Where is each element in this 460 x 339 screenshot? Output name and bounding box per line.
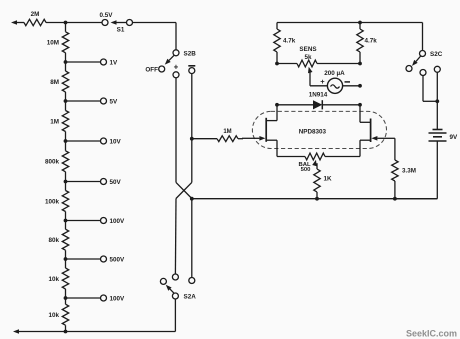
- node tap 500V: [64, 257, 68, 261]
- resistor 10k (ladder): [48, 259, 68, 298]
- terminal OFF (S2B): [145, 66, 164, 74]
- wire BAL rung right: [325, 156, 360, 158]
- switch S2A pole: [172, 293, 196, 301]
- meter M1 200uA: [320, 70, 350, 93]
- svg-text:+: +: [174, 62, 179, 71]
- resistor 800k (ladder): [45, 141, 69, 182]
- svg-text:5V: 5V: [110, 98, 119, 105]
- wiper SENS arrow: [308, 67, 313, 86]
- node meter right rail: [358, 84, 362, 88]
- node bottom-rail junction: [190, 197, 194, 201]
- wire + probe line down: [175, 78, 177, 183]
- package outline NPD8303 (dashed oval): [252, 111, 386, 148]
- node ladder top junction: [64, 21, 68, 25]
- svg-text:S2A: S2A: [184, 294, 197, 301]
- node tap 50V: [64, 180, 68, 184]
- terminal 500V: [101, 256, 126, 263]
- resistor 4.7k left: [274, 23, 296, 64]
- watermark SeekIC.com: [406, 329, 457, 339]
- wire battery to bottom rail: [395, 141, 437, 199]
- terminal 100V: [101, 218, 126, 225]
- resistor 80k (ladder): [48, 221, 68, 260]
- switch S2B pole: [173, 50, 196, 58]
- svg-text:OFF: OFF: [145, 67, 158, 74]
- node diode right rail: [358, 103, 362, 107]
- wire diode rung left: [277, 104, 313, 106]
- node tap 5V: [64, 99, 68, 103]
- svg-text:8M: 8M: [50, 79, 59, 86]
- switch S2B wiper arrow: [165, 55, 174, 64]
- wire BAL rung left: [277, 156, 305, 158]
- terminal S2A contact left: [160, 278, 166, 284]
- terminal 5V: [101, 98, 119, 105]
- node tap 100V: [64, 219, 68, 223]
- wire wiper to meter: [310, 85, 328, 87]
- wire gate Q1 with arrow: [242, 136, 265, 141]
- wire top rail to S2C: [422, 23, 424, 51]
- svg-text:3.3M: 3.3M: [402, 168, 416, 175]
- svg-text:5k: 5k: [304, 54, 312, 61]
- svg-text:SENS: SENS: [299, 46, 316, 53]
- wire tap 500V: [66, 258, 101, 260]
- node SENS left rail: [275, 62, 279, 66]
- svg-text:500: 500: [301, 167, 312, 173]
- svg-text:10M: 10M: [47, 40, 59, 47]
- wire top rail: [277, 22, 423, 24]
- terminal 1V: [101, 59, 119, 66]
- svg-text:800k: 800k: [45, 159, 60, 166]
- resistor R 2M (horizontal): [24, 11, 46, 26]
- resistor 100k (ladder): [45, 182, 69, 221]
- node 1K bottom: [315, 197, 319, 201]
- svg-text:1V: 1V: [110, 59, 119, 66]
- terminal 50V: [101, 179, 122, 186]
- switch S2C pole: [420, 51, 443, 59]
- wire tap 50V: [66, 181, 101, 183]
- svg-text:NPD8303: NPD8303: [299, 128, 327, 135]
- wire tap 1V: [66, 61, 101, 63]
- wire gate Q2 with arrow: [371, 136, 395, 141]
- resistor 1M (gate): [192, 129, 243, 141]
- wire bottom bus with left arrow: [13, 329, 175, 334]
- svg-text:1M: 1M: [50, 118, 59, 125]
- wire SENS rung left: [277, 63, 297, 65]
- switch S1 wiper arrow: [111, 20, 127, 33]
- potentiometer BAL 500: [298, 153, 325, 173]
- wire ladder top to 0.5V terminal: [66, 22, 103, 24]
- svg-text:100V: 100V: [110, 218, 126, 225]
- wiper BAL arrow: [312, 160, 317, 169]
- wire tap 100V: [66, 297, 101, 299]
- svg-text:0.5V: 0.5V: [100, 12, 114, 19]
- wire S2C right contact to battery node: [436, 72, 438, 101]
- wire 2M to ladder top node: [46, 22, 66, 24]
- node SENS right rail: [358, 62, 362, 66]
- resistor 10M (ladder): [47, 23, 69, 63]
- node tap 10V: [64, 139, 68, 143]
- node tap 100V: [64, 296, 68, 300]
- svg-text:1N914: 1N914: [309, 92, 328, 99]
- terminal − input: [188, 66, 195, 74]
- svg-text:9V: 9V: [450, 134, 459, 141]
- wire − probe line down: [191, 74, 193, 183]
- terminal S2A contact mid: [172, 274, 178, 280]
- terminal S2C contact left: [406, 66, 412, 72]
- svg-text:SeekIC.com: SeekIC.com: [406, 329, 457, 339]
- wire meter to right rail: [343, 85, 360, 87]
- transistor Q2 (right JFET of NPD8303): [360, 105, 371, 157]
- node top rail right-4.7k: [358, 21, 362, 25]
- svg-text:4.7k: 4.7k: [365, 38, 378, 45]
- wire top-left lead with arrow: [11, 20, 24, 25]
- svg-text:100V: 100V: [110, 295, 126, 302]
- node tap 1V: [64, 60, 68, 64]
- node 1M gate tap: [190, 137, 194, 141]
- svg-text:+: +: [320, 77, 325, 86]
- terminal + input: [173, 62, 179, 78]
- node diode left rail: [275, 103, 279, 107]
- resistor 10k (ladder): [48, 298, 68, 332]
- svg-text:S2B: S2B: [184, 50, 197, 57]
- wire tap 100V: [66, 220, 101, 222]
- wire S2A to bottom bus: [174, 299, 176, 332]
- svg-text:1K: 1K: [324, 176, 333, 183]
- resistor 1M (ladder): [50, 101, 68, 141]
- terminal 100V: [101, 295, 126, 302]
- terminal S2A contact right: [189, 278, 195, 284]
- wire left line to S2A contact: [174, 199, 177, 275]
- wire bottom rail: [192, 198, 437, 200]
- wire SENS rung right: [317, 63, 360, 65]
- wire S2C mid contact to battery node: [423, 76, 437, 102]
- svg-text:1M: 1M: [223, 129, 231, 135]
- svg-text:50V: 50V: [110, 179, 122, 186]
- terminal 0.5V: [100, 12, 114, 26]
- resistor 8M (ladder): [50, 62, 68, 101]
- node ladder bottom junction: [64, 330, 68, 334]
- wire battery feed: [436, 101, 438, 129]
- node 3.3M bottom: [393, 197, 397, 201]
- switch S2C wiper arrow: [412, 56, 421, 66]
- svg-text:10V: 10V: [110, 138, 122, 145]
- wire diode rung right: [322, 104, 360, 106]
- svg-text:80k: 80k: [48, 237, 59, 244]
- wire S1 to S2B corner: [133, 23, 177, 50]
- svg-text:S1: S1: [117, 27, 125, 34]
- resistor 1K: [314, 169, 332, 199]
- terminal 10V: [101, 138, 122, 145]
- terminal S1 pole: [127, 20, 133, 26]
- node battery top junction: [435, 99, 439, 103]
- svg-text:S2C: S2C: [430, 51, 443, 58]
- resistor 4.7k right: [357, 23, 377, 64]
- wire crossing X: [176, 182, 192, 198]
- svg-text:200 µA: 200 µA: [324, 70, 345, 77]
- svg-text:10k: 10k: [48, 276, 59, 283]
- switch S2A wiper arrow: [166, 285, 174, 293]
- terminal S2C contact mid: [420, 70, 426, 76]
- svg-text:500V: 500V: [110, 256, 126, 263]
- potentiometer SENS 5k: [297, 46, 317, 67]
- resistor 3.3M: [392, 138, 416, 198]
- svg-text:100k: 100k: [45, 198, 60, 205]
- wire tap 5V: [66, 100, 101, 102]
- svg-text:4.7k: 4.7k: [283, 38, 296, 45]
- wire right line to S2A contact: [191, 199, 193, 278]
- battery B1 9V: [429, 130, 459, 142]
- terminal S2C contact right: [434, 66, 440, 72]
- svg-text:10k: 10k: [48, 312, 59, 319]
- transistor Q1 (left JFET of NPD8303): [266, 105, 277, 157]
- diode D1 1N914: [309, 92, 328, 110]
- svg-text:2M: 2M: [31, 11, 40, 18]
- wire tap 10V: [66, 140, 101, 142]
